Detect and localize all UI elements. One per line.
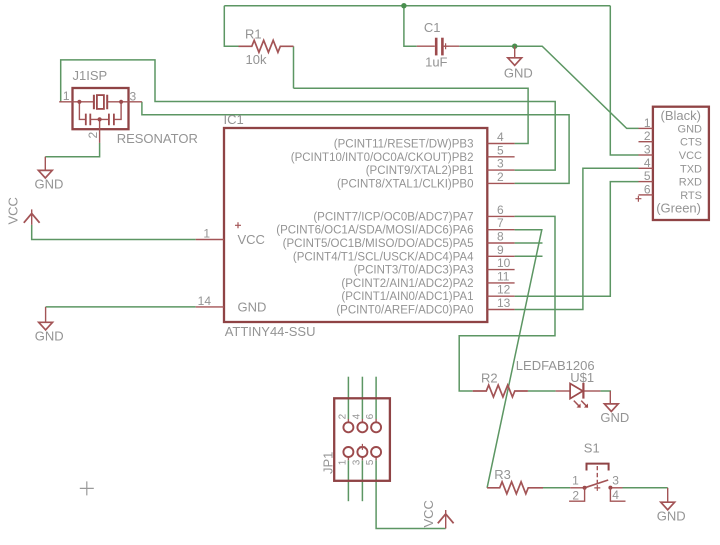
svg-text:U$1: U$1 — [570, 370, 594, 385]
svg-text:1: 1 — [63, 89, 70, 103]
svg-text:1: 1 — [572, 474, 579, 488]
junction top rail at C1 — [401, 3, 406, 8]
IC1 pin 10 stub — [487, 269, 514, 271]
svg-text:VCC: VCC — [238, 232, 265, 247]
svg-text:(PCINT4/T1/SCL/USCK/ADC4)PA4: (PCINT4/T1/SCL/USCK/ADC4)PA4 — [293, 251, 474, 263]
svg-text:IC1: IC1 — [224, 112, 244, 127]
svg-text:5: 5 — [497, 143, 504, 157]
svg-text:9: 9 — [497, 243, 504, 257]
connector pin 3 stub — [639, 154, 653, 156]
wire JP1 pin 2 stub up — [347, 377, 349, 419]
svg-text:JP1: JP1 — [321, 452, 336, 474]
svg-text:GND: GND — [238, 299, 267, 314]
wire R1 right drop — [293, 46, 295, 88]
IC1 pin 5 stub — [487, 156, 514, 158]
svg-text:VCC: VCC — [679, 150, 702, 162]
svg-text:2: 2 — [497, 170, 504, 184]
IC1 pin 4 stub — [487, 143, 514, 145]
svg-text:3: 3 — [130, 90, 137, 104]
svg-text:10: 10 — [497, 256, 511, 270]
svg-text:(PCINT1/AIN0/ADC1)PA1: (PCINT1/AIN0/ADC1)PA1 — [341, 291, 473, 303]
svg-text:10k: 10k — [246, 52, 267, 67]
connector pin 1 stub — [639, 127, 653, 129]
svg-text:(PCINT6/OC1A/SDA/MOSI/ADC6)PA6: (PCINT6/OC1A/SDA/MOSI/ADC6)PA6 — [276, 225, 473, 237]
wire JP1 pin 1 stub down — [347, 460, 349, 501]
connector pin 6 stub — [639, 194, 653, 196]
svg-text:S1: S1 — [584, 441, 600, 456]
svg-text:6: 6 — [497, 203, 504, 217]
IC1 pin 1 stub — [196, 239, 224, 241]
wire resonator pin2 to GND — [45, 143, 99, 157]
connector origin cross — [635, 196, 641, 202]
svg-text:CTS: CTS — [680, 137, 702, 149]
svg-text:4: 4 — [644, 156, 651, 170]
wire C1 left drop — [404, 6, 417, 47]
svg-text:3: 3 — [497, 157, 504, 171]
wire JP1 pin 5 to VCC — [376, 460, 446, 528]
wire R2 to LED anode — [528, 390, 556, 392]
resistor R3 — [487, 482, 543, 494]
IC1 origin cross — [235, 222, 241, 228]
svg-text:5: 5 — [644, 169, 651, 183]
svg-text:GND: GND — [657, 508, 686, 523]
VCC symbol bottom — [438, 510, 454, 529]
svg-text:ATTINY44-SSU: ATTINY44-SSU — [225, 324, 316, 339]
junction C1 right GND node — [512, 44, 517, 49]
svg-text:3: 3 — [644, 143, 651, 157]
svg-text:2: 2 — [338, 413, 349, 419]
svg-text:4: 4 — [497, 130, 504, 144]
svg-text:GND: GND — [678, 123, 703, 135]
svg-text:13: 13 — [497, 296, 511, 310]
svg-text:5: 5 — [365, 459, 376, 465]
svg-text:2: 2 — [644, 129, 651, 143]
svg-text:(Green): (Green) — [656, 201, 701, 216]
wire VCC arrow to IC pin 1 — [32, 225, 196, 240]
svg-text:2: 2 — [86, 132, 100, 139]
IC1 pin 12 stub — [487, 295, 514, 297]
wire VCC top rail — [224, 5, 610, 7]
wire IC pin 6 to R2 — [459, 216, 555, 391]
wire JP1 pin 6 stub up — [375, 377, 377, 419]
svg-text:C1: C1 — [424, 20, 441, 35]
connector pin 5 stub — [639, 181, 653, 183]
wire RESET rail to IC pin 4 — [294, 88, 529, 143]
svg-text:(PCINT8/XTAL1/CLKI)PB0: (PCINT8/XTAL1/CLKI)PB0 — [337, 178, 474, 190]
svg-text:4: 4 — [612, 488, 619, 502]
svg-text:(PCINT7/ICP/OC0B/ADC7)PA7: (PCINT7/ICP/OC0B/ADC7)PA7 — [313, 211, 473, 223]
svg-text:(PCINT9/XTAL2)PB1: (PCINT9/XTAL2)PB1 — [366, 165, 474, 177]
wire connector TXD to IC pin 13 — [515, 168, 639, 309]
wire IC pin 7 diagonal to R3 — [487, 230, 542, 488]
svg-text:GND: GND — [35, 329, 64, 344]
IC1 pin 14 stub — [196, 306, 224, 308]
LED US1 — [556, 383, 601, 408]
svg-text:1: 1 — [203, 226, 210, 240]
resistor R1 — [239, 40, 294, 52]
svg-text:(PCINT5/OC1B/MISO/DO/ADC5)PA5: (PCINT5/OC1B/MISO/DO/ADC5)PA5 — [283, 238, 474, 250]
capacitor C1 — [417, 38, 460, 56]
IC1 pin 8 stub — [487, 242, 514, 244]
IC1 ATTINY44 box — [224, 128, 487, 322]
svg-text:1: 1 — [644, 116, 651, 130]
svg-text:J1ISP: J1ISP — [73, 68, 108, 83]
svg-text:GND: GND — [34, 176, 63, 191]
svg-text:(PCINT0/AREF/ADC0)PA0: (PCINT0/AREF/ADC0)PA0 — [336, 305, 473, 317]
connector pin 2 stub — [639, 141, 653, 143]
IC1 pin 6 stub — [487, 215, 514, 217]
svg-text:1: 1 — [338, 459, 349, 465]
svg-text:R2: R2 — [481, 371, 498, 386]
svg-text:R1: R1 — [245, 27, 262, 42]
svg-text:RESONATOR: RESONATOR — [117, 131, 198, 146]
wire connector RXD to IC pin 12 — [515, 182, 639, 297]
wire top rail left drop to R1 — [224, 6, 238, 47]
origin cross gray — [80, 481, 94, 495]
VCC symbol left — [24, 209, 40, 224]
svg-text:11: 11 — [497, 269, 510, 283]
wire C1 right to GND junction — [459, 45, 514, 47]
svg-text:6: 6 — [365, 413, 376, 419]
svg-text:(PCINT3/T0/ADC3)PA3: (PCINT3/T0/ADC3)PA3 — [354, 265, 474, 277]
svg-text:4: 4 — [352, 413, 363, 419]
svg-text:(PCINT11/RESET/DW)PB3: (PCINT11/RESET/DW)PB3 — [334, 139, 474, 151]
svg-text:8: 8 — [497, 230, 504, 244]
svg-text:GND: GND — [504, 66, 533, 81]
resonator J1ISP — [59, 88, 142, 143]
svg-text:3: 3 — [352, 459, 363, 465]
wire LED cathode to GND — [600, 390, 610, 392]
wire IC pin 8 stub — [515, 242, 543, 244]
IC1 pin 13 stub — [487, 309, 514, 311]
svg-text:RXD: RXD — [679, 177, 702, 189]
switch S1 — [569, 464, 625, 502]
ground at IC pin 14 — [39, 307, 53, 330]
IC1 pin 3 stub — [487, 169, 514, 171]
IC1 pin 9 stub — [487, 255, 514, 257]
svg-text:R3: R3 — [494, 467, 511, 482]
wire GND junction to connector pin 1 diagonal — [515, 46, 639, 128]
ground under resonator — [38, 157, 52, 178]
svg-text:3: 3 — [612, 473, 619, 487]
ground under C1 — [508, 46, 522, 65]
wire S1 pin 3 to GND — [623, 487, 668, 489]
svg-text:1uF: 1uF — [425, 54, 447, 69]
svg-text:VCC: VCC — [6, 197, 21, 224]
ground at S1 — [661, 488, 675, 510]
svg-text:GND: GND — [600, 410, 629, 425]
connector pin 4 stub — [639, 167, 653, 169]
IC1 pin 7 stub — [487, 229, 514, 231]
svg-text:(Black): (Black) — [661, 108, 701, 123]
connector box — [653, 107, 709, 220]
wire resonator pin3 to IC pin 2 — [142, 102, 569, 184]
svg-text:(PCINT2/AIN1/ADC2)PA2: (PCINT2/AIN1/ADC2)PA2 — [341, 278, 473, 290]
IC1 pin 2 stub — [487, 182, 514, 184]
svg-text:(PCINT10/INT0/OC0A/CKOUT)PB2: (PCINT10/INT0/OC0A/CKOUT)PB2 — [291, 152, 474, 164]
wire IC pin 14 to GND — [46, 306, 196, 308]
wire R3 to S1 pin 1 — [543, 487, 570, 489]
wire VCC drop to connector pin 3 — [610, 6, 638, 155]
svg-text:6: 6 — [644, 182, 651, 196]
svg-text:2: 2 — [572, 488, 579, 502]
resistor R2 — [473, 385, 528, 397]
wire JP1 pin 3 stub down — [361, 460, 363, 501]
svg-text:12: 12 — [497, 283, 511, 297]
svg-text:7: 7 — [497, 216, 504, 230]
header JP1 — [334, 398, 390, 481]
svg-text:14: 14 — [198, 294, 212, 308]
wire IC pin 9 stub — [515, 255, 543, 257]
svg-text:TXD: TXD — [680, 163, 702, 175]
wire JP1 pin 4 stub up — [361, 377, 363, 419]
wire resonator pin1 over-the-top to IC pin 3 — [61, 60, 556, 170]
ground under LED — [604, 391, 618, 412]
IC1 pin 11 stub — [487, 282, 514, 284]
svg-text:VCC: VCC — [421, 500, 436, 527]
